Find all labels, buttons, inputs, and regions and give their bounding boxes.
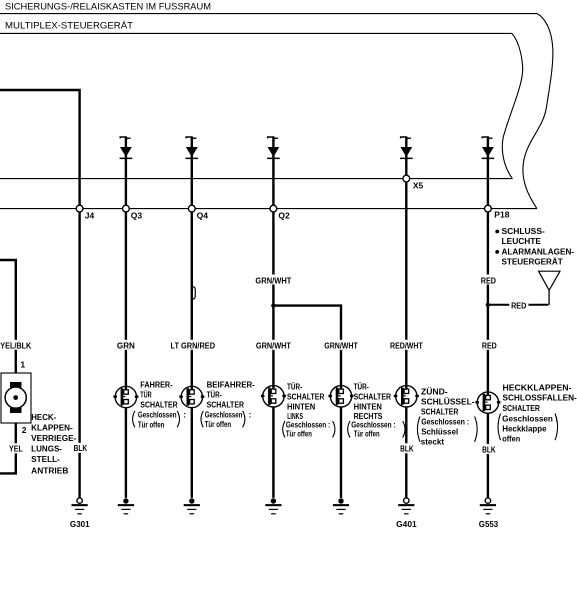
svg-text:ZÜND-: ZÜND-	[421, 387, 448, 396]
svg-text:RED/WHT: RED/WHT	[390, 341, 423, 350]
svg-text:SCHLÜSSEL-: SCHLÜSSEL-	[421, 398, 475, 407]
svg-text:Q3: Q3	[131, 211, 143, 221]
diode D-X5	[400, 137, 413, 159]
svg-text:TÜR-: TÜR-	[354, 382, 369, 391]
svg-text:SCHALTER: SCHALTER	[287, 392, 325, 401]
diode D-Q3	[120, 137, 133, 159]
svg-text:Geschlossen :: Geschlossen :	[421, 418, 469, 427]
node X5	[403, 175, 410, 182]
svg-text:LINKS: LINKS	[287, 412, 303, 421]
svg-text:LUNGS-: LUNGS-	[31, 444, 62, 453]
switch S4 text	[348, 382, 405, 438]
svg-text:SCHALTER: SCHALTER	[140, 401, 178, 410]
torn-edge inner curve	[502, 33, 522, 178]
wire label RED (lower, P18)	[481, 340, 498, 351]
switch S5 text	[417, 387, 477, 446]
svg-text:GRN/WHT: GRN/WHT	[256, 341, 291, 350]
junction dot on P18 wire	[486, 303, 490, 307]
wire label YEL/BLK	[0, 340, 32, 351]
svg-text:BLK: BLK	[482, 445, 496, 454]
switch S3 left rear door (TUERSCHALTER HINTEN LINKS)	[261, 386, 286, 407]
bullet list: tail light / alarm control unit	[495, 227, 574, 267]
junction dot on Q2 wire	[271, 303, 275, 307]
svg-text:HECKKLAPPEN-: HECKKLAPPEN-	[503, 383, 572, 392]
wire label BLK (tailgate latch switch)	[481, 444, 497, 454]
svg-text:STELL-: STELL-	[31, 455, 60, 464]
svg-text:SCHALTER: SCHALTER	[421, 407, 459, 416]
fuse/relay box boundary line	[0, 13, 537, 15]
svg-text:G401: G401	[396, 520, 417, 529]
wire label RED/WHT	[389, 340, 424, 351]
terminal Q2	[270, 205, 277, 212]
ground G301	[70, 498, 90, 529]
svg-text:GRN/WHT: GRN/WHT	[324, 341, 358, 350]
svg-text:X5: X5	[413, 180, 424, 190]
terminal Q4	[188, 205, 195, 212]
wire RED branch to alarm arrow	[489, 304, 548, 306]
wire label GRN/WHT (upper, Q2)	[255, 275, 292, 286]
svg-text:G553: G553	[479, 520, 499, 529]
wire label YEL (pin 2)	[8, 443, 24, 453]
svg-text:SCHALTER: SCHALTER	[503, 404, 541, 413]
tailgate lock actuator motor M1	[1, 360, 31, 436]
svg-text:Heckklappe: Heckklappe	[502, 425, 547, 434]
wire label BLK (J4 column)	[73, 443, 89, 453]
svg-text:LT GRN/RED: LT GRN/RED	[171, 341, 216, 350]
svg-text:offen: offen	[502, 434, 520, 443]
wire Q4 column (LT GRN/RED)	[191, 137, 193, 498]
svg-text:Tür offen: Tür offen	[138, 421, 165, 430]
wire label RED (upper, P18)	[480, 275, 497, 286]
wire label GRN	[116, 340, 136, 351]
wire from fuse box to terminal J4	[0, 90, 80, 498]
terminal Q3	[123, 205, 130, 212]
internal bus line with node X5	[0, 178, 512, 180]
multiplex control unit boundary line	[0, 32, 512, 34]
switch S6 text	[498, 383, 577, 443]
switch S3 text	[283, 382, 335, 438]
svg-text:SCHLUSS-: SCHLUSS-	[502, 227, 546, 236]
svg-text:STEUERGERÄT: STEUERGERÄT	[502, 258, 563, 267]
wire X5 column (RED/WHT)	[405, 137, 407, 498]
svg-text:RECHTS: RECHTS	[354, 412, 383, 421]
svg-text:Tür offen: Tür offen	[354, 430, 380, 439]
wire label LT GRN/RED	[170, 340, 217, 351]
svg-text::: :	[249, 411, 252, 420]
switch S1 text	[133, 380, 186, 429]
svg-text:Geschlossen: Geschlossen	[205, 411, 243, 420]
wire label GRN/WHT (right rear door)	[323, 340, 359, 351]
svg-text:MULTIPLEX-STEUERGERÄT: MULTIPLEX-STEUERGERÄT	[5, 21, 133, 31]
in-line connector bump on Q4 wire	[193, 287, 195, 299]
svg-text:steckt: steckt	[421, 438, 445, 447]
multiplex unit bottom connector line	[0, 208, 537, 210]
svg-text:KLAPPEN-: KLAPPEN-	[31, 424, 73, 433]
diode D-P18	[482, 137, 495, 159]
switch S2 passenger door (BEIFAHRER-TUER-SCHALTER)	[179, 386, 204, 407]
switch S6 tailgate latch (HECKKLAPPEN-SCHLOSSFALLEN-SCHALTER)	[475, 392, 500, 413]
wire label GRN/WHT (lower, Q2)	[255, 340, 292, 351]
off-page arrow triangle (to alarm system)	[539, 271, 560, 290]
svg-text:Geschlossen :: Geschlossen :	[286, 421, 330, 430]
wire Q2 column (GRN/WHT)	[272, 137, 274, 498]
svg-text:SCHLOSSFALLEN-: SCHLOSSFALLEN-	[503, 394, 577, 403]
svg-text:BLK: BLK	[400, 445, 414, 454]
svg-text:HINTEN: HINTEN	[354, 403, 383, 412]
wire Q3 column (GRN)	[125, 137, 127, 498]
svg-text:Geschlossen :: Geschlossen :	[351, 421, 395, 430]
svg-text:2: 2	[22, 425, 27, 435]
switch S1 driver door (FAHRER-TUER-SCHALTER)	[113, 386, 138, 407]
svg-text:RED: RED	[481, 276, 496, 285]
svg-text:Schlüssel: Schlüssel	[421, 428, 458, 437]
svg-text:Q4: Q4	[197, 211, 209, 221]
svg-text:YEL/BLK: YEL/BLK	[0, 341, 31, 350]
svg-text:RED: RED	[511, 301, 526, 310]
svg-text:SICHERUNGS-/RELAISKASTEN IM FU: SICHERUNGS-/RELAISKASTEN IM FUSSRAUM	[5, 2, 211, 12]
switch S5 ignition key switch (ZUENDSCHLUESSELSCHALTER)	[394, 386, 419, 407]
svg-text:FAHRER-: FAHRER-	[140, 380, 173, 389]
ground G401	[396, 498, 417, 529]
actuator name text HECKKLAPPENVERRIEGELUNGSSTELLANTRIEB	[31, 413, 76, 475]
ground (right rear door switch)	[333, 498, 349, 514]
ground (driver door switch)	[118, 498, 134, 514]
svg-text:SCHALTER: SCHALTER	[207, 401, 245, 410]
svg-text:G301: G301	[70, 520, 90, 529]
svg-text:Geschlossen: Geschlossen	[138, 411, 177, 420]
torn-edge outer curve	[523, 14, 553, 209]
diode D-Q2	[267, 137, 280, 159]
svg-text:VERRIEGE-: VERRIEGE-	[31, 434, 76, 443]
svg-text:P18: P18	[494, 209, 509, 219]
switch S2 text	[201, 380, 255, 429]
svg-text:RED: RED	[482, 341, 497, 350]
svg-text::: :	[183, 411, 186, 420]
terminal J4	[76, 205, 83, 212]
svg-text:ALARMANLAGEN-: ALARMANLAGEN-	[502, 247, 575, 256]
wire tailgate actuator pin 2 (YEL)	[0, 412, 16, 473]
svg-text:BLK: BLK	[74, 444, 88, 453]
svg-text:BEIFAHRER-: BEIFAHRER-	[207, 380, 256, 389]
ground (left rear door switch)	[265, 498, 281, 514]
svg-text:Tür offen: Tür offen	[205, 420, 231, 429]
svg-text:1: 1	[20, 360, 25, 370]
wire P18 column (RED)	[487, 137, 489, 498]
svg-text:HECK-: HECK-	[31, 413, 56, 422]
wire stub up to off-page triangle	[548, 290, 550, 305]
svg-text:Geschlossen :: Geschlossen :	[502, 415, 558, 424]
svg-text:Q2: Q2	[278, 211, 290, 221]
svg-text:TÜR-: TÜR-	[287, 382, 302, 391]
svg-text:GRN: GRN	[117, 341, 135, 350]
svg-text:LEUCHTE: LEUCHTE	[502, 237, 542, 246]
wire label BLK (ignition key switch)	[399, 443, 415, 453]
diode D-Q4	[186, 137, 199, 159]
svg-text:J4: J4	[85, 211, 95, 221]
svg-text:TÜR-: TÜR-	[207, 390, 222, 399]
svg-text:Tür offen: Tür offen	[286, 430, 312, 439]
switch S4 right rear door (TUERSCHALTER HINTEN RECHTS)	[329, 386, 354, 407]
ground G553	[479, 498, 499, 529]
ground (passenger door switch)	[184, 498, 200, 514]
terminal P18	[485, 205, 492, 212]
svg-text:HINTEN: HINTEN	[287, 403, 316, 412]
svg-text:YEL: YEL	[9, 445, 23, 454]
svg-text:SCHALTER: SCHALTER	[354, 392, 392, 401]
wire tailgate actuator pin 1 (YEL/BLK)	[0, 260, 16, 383]
wire branch Q2 junction to right rear door switch	[273, 306, 341, 498]
svg-text:TÜR: TÜR	[140, 390, 152, 399]
svg-text:ANTRIEB: ANTRIEB	[31, 466, 68, 475]
svg-text:GRN/WHT: GRN/WHT	[255, 276, 291, 285]
